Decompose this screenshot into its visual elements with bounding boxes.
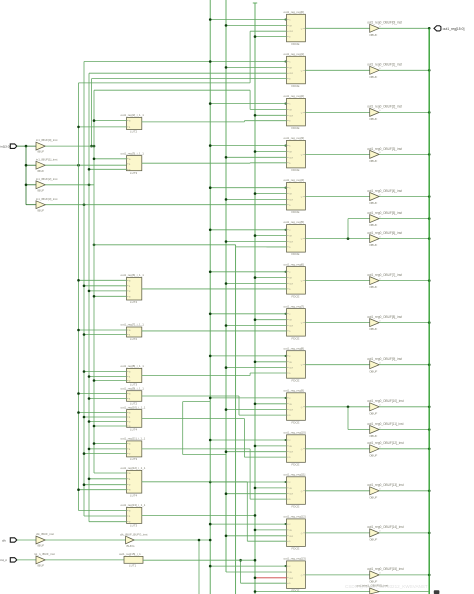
svg-text:OBUF: OBUF [369,538,377,542]
svg-text:FDCE: FDCE [292,168,300,172]
svg-text:0: 0 [379,489,380,491]
svg-text:FDCE: FDCE [292,252,300,256]
svg-text:CLR: CLR [289,284,294,286]
output buffer OBUF[7] [367,273,402,289]
wire D FF7 from LUT D [142,330,287,332]
svg-text:in1_IBUF[2]_inst: in1_IBUF[2]_inst [36,177,58,181]
svg-text:FDCE: FDCE [292,42,300,46]
svg-text:LUT1: LUT1 [129,564,136,568]
svg-text:IBUF: IBUF [38,208,45,212]
svg-text:I3: I3 [129,296,131,298]
svg-text:I2: I2 [129,454,131,456]
svg-text:out1_reg_reg[8]: out1_reg_reg[8] [284,346,305,350]
svg-text:I2: I2 [129,422,131,424]
input port in1[3:0] [0,144,17,149]
wire CLR input FF8 [225,366,287,369]
svg-text:0: 0 [379,363,380,365]
svg-text:I1: I1 [129,399,131,401]
flip-flop out1_reg_reg[10] (FDCE) [284,431,306,467]
wire output of out1_reg[13]_i_1 [142,514,256,517]
wire clk port to IBUF [17,539,36,541]
wire output of out1_reg[8]_i_1 [142,375,250,377]
svg-text:OBUF: OBUF [369,201,377,205]
svg-text:in1_IBUF[1]_inst: in1_IBUF[1]_inst [36,157,58,161]
wire data vertical x235 [235,245,237,594]
wire CLR FF1 long row [89,72,287,74]
wire C input FF8 [209,355,287,358]
wire in1[1] row [45,164,126,167]
svg-text:I1: I1 [129,335,131,337]
svg-text:I0: I0 [129,413,131,415]
svg-text:I1: I1 [129,127,131,129]
svg-text:I0: I0 [129,280,131,282]
wire Q output FF6 [305,280,369,282]
svg-text:rst_n: rst_n [0,558,7,562]
wire Q output FF5 [305,238,369,240]
svg-text:out1_reg_reg[0]: out1_reg_reg[0] [284,10,305,14]
output buffer OBUF[2] [367,105,402,121]
svg-text:I1: I1 [129,377,131,379]
svg-text:out1_reg_reg[7]: out1_reg_reg[7] [284,304,305,308]
svg-text:out1_reg_reg[2]: out1_reg_reg[2] [284,94,305,98]
svg-text:out1_reg0_OBUF[13]_inst: out1_reg0_OBUF[13]_inst [367,483,404,487]
wire D FF13 elbow [239,559,286,583]
svg-text:out1_reg0_OBUF[7]_inst: out1_reg0_OBUF[7]_inst [367,273,402,277]
svg-text:I2: I2 [129,381,131,383]
lut out1_reg[13]_i_1 (LUT3) [121,503,146,527]
wire CLR FF0 elbow route [79,31,287,83]
svg-text:0: 0 [379,447,380,449]
svg-text:CLR: CLR [289,410,294,412]
svg-text:out1_reg[12]_i_1_1: out1_reg[12]_i_1_1 [121,466,146,470]
svg-text:I1: I1 [129,286,131,288]
flip-flop out1_reg_reg[2] (FDCE) [284,94,306,130]
lut out1_reg[3]_i_1 (LUT3) [121,151,145,175]
wire Q output FF0 [305,27,369,29]
wire CLR input FF11 [225,492,287,495]
svg-text:FDCE: FDCE [292,294,300,298]
wire C input FF1 long row [84,60,287,63]
wire C input FF5 [209,229,287,232]
wire CE input FF8 [254,361,287,364]
wire CE input FF11 [254,487,287,490]
wire Q output FF8 [305,364,369,366]
svg-text:0: 0 [379,427,380,429]
output buffer OBUF[5] [367,211,402,227]
svg-text:out1_reg0_OBUF[0]_inst: out1_reg0_OBUF[0]_inst [367,21,402,25]
svg-text:out1_reg0_OBUF[10]_inst: out1_reg0_OBUF[10]_inst [367,399,404,403]
svg-text:out1_reg_reg[1]: out1_reg_reg[1] [284,52,305,56]
flip-flop out1_reg_reg[9] (FDCE) [284,388,306,424]
wire output of out1_reg[6]_i_1 [142,288,287,290]
wire CE vertical net [253,3,257,594]
wire OBUF[2] to bus [379,111,430,114]
wire rst port to IBUF [17,559,36,561]
wire OBUF[10] to bus [379,406,430,409]
svg-text:0: 0 [379,236,380,238]
svg-text:0: 0 [379,194,380,196]
output buffer OBUF[11] [367,422,403,438]
wire out_wire1 OBUF output [379,591,429,593]
flip-flop out1_reg_reg[7] (FDCE) [284,304,306,340]
output buffer OBUF[1] [367,63,402,79]
svg-text:out1_reg[9]_i_1_1: out1_reg[9]_i_1_1 [121,386,145,390]
svg-text:I0: I0 [129,473,131,475]
output buffer OBUF[0] [367,21,402,37]
wire CLR FF13 red segment [254,577,287,580]
svg-text:OBUF: OBUF [369,117,377,121]
wire clock vertical net [209,0,211,594]
svg-text:LUT3: LUT3 [130,524,137,528]
svg-text:out1_reg0_OBUF[4]_inst: out1_reg0_OBUF[4]_inst [367,189,402,193]
svg-text:out1_reg[10]_i_1_1: out1_reg[10]_i_1_1 [121,405,146,409]
svg-text:out1_reg0_OBUF[14]_inst: out1_reg0_OBUF[14]_inst [367,525,404,529]
svg-text:CLR: CLR [289,157,294,159]
svg-text:FDCE: FDCE [292,84,300,88]
wire inputs of out1_reg[13]_i_1 [79,511,127,522]
svg-text:CLR: CLR [289,326,294,328]
svg-text:clk_IBUF_inst: clk_IBUF_inst [36,532,54,536]
wire CE input FF3 [254,150,287,153]
wire extra OBUF jog lower [347,406,370,430]
svg-text:I3: I3 [129,426,131,428]
svg-text:IBUF: IBUF [38,544,45,548]
wire out_wire1 row [254,590,370,593]
wire CE input FF10 [254,445,287,448]
flip-flop out1_reg_reg[6] (FDCE) [284,262,306,298]
wire OBUF[15] to bus [379,574,430,577]
wire mid vertical x182 [183,402,226,455]
svg-text:OBUF: OBUF [369,495,377,499]
svg-text:CLR: CLR [289,536,294,538]
svg-text:out1_reg[11]_i_1_1: out1_reg[11]_i_1_1 [121,437,146,441]
wire OBUF[14] to bus [379,532,430,535]
svg-text:FDCE: FDCE [292,589,300,593]
svg-text:BUFG: BUFG [127,544,136,548]
svg-text:LUT2: LUT2 [130,337,137,341]
svg-text:I1: I1 [129,417,131,419]
svg-text:LUT3: LUT3 [130,457,137,461]
svg-text:OBUF: OBUF [369,159,377,163]
wire CLR input FF7 [225,324,287,327]
svg-text:I2: I2 [129,522,131,524]
output buffer OBUF[4] [367,189,402,205]
wire Q output FF12 [305,532,369,534]
wire C input FF7 [209,313,287,316]
svg-text:out1_reg[15]_i_1: out1_reg[15]_i_1 [119,552,141,556]
svg-text:out1_reg[8]_i_1_1: out1_reg[8]_i_1_1 [121,364,145,368]
wire C input FF6 [209,271,287,274]
output buffer OBUF[3] [367,147,402,163]
svg-text:in1_IBUF[0]_inst: in1_IBUF[0]_inst [36,138,58,142]
wire D FF8 from LUT E jog [250,373,286,376]
wire CLR input FF9 [225,408,287,411]
svg-text:out1_reg_reg[13]: out1_reg_reg[13] [284,557,306,561]
wire C input FF4 [209,186,287,189]
svg-text:out1_reg0_OBUF[6]_inst: out1_reg0_OBUF[6]_inst [367,231,402,235]
wire Q output FF13 [305,574,369,576]
svg-text:FDCE: FDCE [292,210,300,214]
svg-text:I0: I0 [129,159,131,161]
wire CE input FF1 [225,66,287,69]
wire CLR input FF4 [225,198,287,201]
wire CLR vertical net [225,0,227,572]
input port clk [2,538,17,543]
lut out1_reg[10]_i_1 (LUT4) [121,405,146,431]
flip-flop out1_reg_reg[5] (FDCE) [284,220,306,256]
svg-text:clk: clk [2,538,6,542]
wire D FF11 from LUT H jog [250,449,286,499]
output buffer OBUF[6] [367,231,402,247]
svg-text:out1_reg0_OBUF[15]_inst: out1_reg0_OBUF[15]_inst [367,567,404,571]
wire C input FF13 [209,565,287,568]
svg-text:LUT4: LUT4 [130,300,137,304]
svg-text:out1_reg[3]_i_1_1: out1_reg[3]_i_1_1 [121,151,145,155]
svg-text:I2: I2 [129,169,131,171]
svg-text:out1_reg_reg[5]: out1_reg_reg[5] [284,220,305,224]
lut out1_reg[7]_i_1 (LUT2) [121,323,145,342]
svg-text:out1_reg_reg[6]: out1_reg_reg[6] [284,262,305,266]
wire OBUF[12] to bus [379,448,430,451]
svg-text:I0: I0 [129,394,131,396]
svg-text:0: 0 [379,68,380,70]
wire CE input FF2 elbow [250,90,286,109]
flip-flop out1_reg_reg[12] (FDCE) [284,515,306,551]
output buffer OBUF[14] [367,525,404,541]
wire inputs of out1_reg[8]_i_1 [83,370,127,382]
svg-text:LUT3: LUT3 [130,171,137,175]
svg-text:FDCE: FDCE [292,420,300,424]
lut out1_reg[9]_i_1 (LUT2) [121,386,145,405]
output buffer out_wire1_OBUF (partial) [357,584,389,594]
output buffer OBUF[15] [367,567,404,583]
wire D FF12 from LUT I jog [247,482,286,541]
svg-text:out1_reg0_OBUF[11]_inst: out1_reg0_OBUF[11]_inst [367,422,403,426]
wire Q output FF7 [305,322,369,324]
wire Q output FF2 [305,111,369,113]
wire CLR input FF10 [225,450,287,453]
svg-text:0: 0 [379,152,380,154]
wire left vertical net v78 [78,83,80,511]
wire C input FF11 [209,481,287,484]
wire output of out1_reg[10]_i_1 [142,418,245,420]
lut out1_reg[11]_i_1 (LUT3) [121,437,146,462]
svg-text:I0: I0 [129,121,131,123]
wire C input FF0 [209,18,287,21]
svg-text:I1: I1 [129,164,131,166]
wire inputs of out1_reg[10]_i_1 [77,411,126,427]
wire D FF10 from LUT G jog [244,419,286,458]
wire inputs of out1_reg[3]_i_1 [88,158,127,171]
svg-text:CLR: CLR [289,452,294,454]
wire LUT1 output to reset net [143,559,256,562]
watermark text [345,584,439,594]
wire inputs of out1_reg[11]_i_1 [83,442,127,455]
svg-text:out1_reg0_OBUF[8]_inst: out1_reg0_OBUF[8]_inst [367,315,402,319]
wire out1 bus vertical [428,28,430,594]
svg-text:0: 0 [379,278,380,280]
flip-flop out1_reg_reg[3] (FDCE) [284,136,306,172]
svg-text:I3: I3 [129,490,131,492]
wire C input FF3 [209,144,287,147]
wire inputs of out1_reg[6]_i_1 [77,279,126,298]
flip-flop out1_reg_reg[13] (FDCE) [284,557,306,593]
wire in1[2] row [45,184,94,187]
wire rst IBUF to LUT1 [45,559,124,561]
svg-text:OBUF: OBUF [369,33,377,37]
wire Q output FF11 [305,490,369,492]
svg-text:I0: I0 [129,511,131,513]
svg-text:LUT2: LUT2 [130,130,137,134]
input buffer in1_IBUF[3] [36,197,58,213]
svg-text:CLR: CLR [289,368,294,370]
svg-text:I2: I2 [129,485,131,487]
wire D FF9 from LUT F jog [239,396,287,415]
svg-text:out1_reg_reg[4]: out1_reg_reg[4] [284,178,305,182]
wire OBUF[0] to bus [379,27,430,30]
svg-text:FDCE: FDCE [292,336,300,340]
wire CLR FF2 from CE vert [254,114,287,117]
wire CE input FF0 [225,24,287,27]
wire C input FF2 [209,102,287,105]
lut out1_reg[12]_i_1 (LUT4) [121,466,146,497]
svg-text:0: 0 [379,573,380,575]
svg-text:in1_IBUF[3]_inst: in1_IBUF[3]_inst [36,197,58,201]
wire C input FF10 [209,439,287,442]
wire inputs of out1_reg[9]_i_1 [77,392,126,400]
wire OBUF[6] to bus [379,237,430,240]
svg-text:I0: I0 [129,330,131,332]
wire output of out1_reg[2]_i_1 [142,121,245,123]
wire CE input FF4 [254,192,287,195]
svg-text:I0: I0 [129,372,131,374]
svg-text:out1_reg_reg[10]: out1_reg_reg[10] [284,431,306,435]
svg-text:OBUF: OBUF [369,369,377,373]
wire output of out1_reg[11]_i_1 [142,448,250,450]
svg-text:out1_reg[7]_i_1_1: out1_reg[7]_i_1_1 [121,323,145,327]
wire OBUF[11] to bus [379,428,430,431]
wire inputs of out1_reg[7]_i_1 [77,329,126,336]
flip-flop out1_reg_reg[8] (FDCE) [284,346,306,382]
wire extra OBUF jog upper [347,219,370,240]
wire output of out1_reg[9]_i_1 [142,395,239,397]
svg-text:clk_IBUF_BUFG_inst: clk_IBUF_BUFG_inst [120,533,148,537]
wire left vertical net v84 [83,62,85,517]
svg-text:I0: I0 [129,444,131,446]
output buffer OBUF[9] [367,357,402,373]
svg-text:OBUF: OBUF [369,434,377,438]
svg-text:LUT4: LUT4 [130,428,137,432]
svg-text:0: 0 [379,26,380,28]
svg-text:out1_reg[6]_i_1_1: out1_reg[6]_i_1_1 [121,273,145,277]
svg-text:CLR: CLR [289,73,294,75]
wire output of out1_reg[12]_i_1 [142,481,248,483]
svg-text:out1_reg0_OBUF[12]_inst: out1_reg0_OBUF[12]_inst [367,441,404,445]
svg-text:0: 0 [379,531,380,533]
svg-text:I1: I1 [129,516,131,518]
wire BUFG output to clock net [134,539,211,542]
svg-text:out1_reg[2]_i_1_1: out1_reg[2]_i_1_1 [121,113,145,117]
buffer clk_IBUF_BUFG_inst [120,533,148,549]
lut out1_reg[8]_i_1 (LUT3) [121,364,145,387]
output buffer OBUF[10] [367,399,404,415]
flip-flop out1_reg_reg[0] (FDCE) [284,10,306,46]
svg-text:0: 0 [379,405,380,407]
svg-text:out1_reg0_OBUF[1]_inst: out1_reg0_OBUF[1]_inst [367,63,402,67]
svg-text:FDCE: FDCE [292,463,300,467]
svg-text:0: 0 [379,110,380,112]
wire CLR input FF12 [225,535,287,538]
wire OBUF[13] to bus [379,490,430,493]
wire BUFG branch vertical [198,540,200,594]
svg-text:CLR: CLR [289,31,294,33]
wire left vertical net v94 [93,90,95,473]
wire inputs of out1_reg[12]_i_1 [77,473,126,491]
svg-text:out1_reg_reg[12]: out1_reg_reg[12] [284,515,306,519]
wire D FF5 row244 jog [93,244,287,247]
svg-text:I2: I2 [129,291,131,293]
svg-text:CLR: CLR [289,242,294,244]
svg-text:out1_reg_reg[9]: out1_reg_reg[9] [284,388,305,392]
svg-text:in1[3:0]: in1[3:0] [0,145,10,149]
output buffer OBUF[12] [367,441,404,457]
svg-text:0: 0 [379,216,380,218]
wire D FF2 from LUT A jog [244,121,286,122]
input buffer in1_IBUF[1] [36,157,58,173]
svg-text:I1: I1 [129,479,131,481]
input buffer in1_IBUF[0] [36,138,58,154]
svg-text:FDCE: FDCE [292,378,300,382]
wire clk IBUF to BUFG [45,539,125,541]
wire Q output FF9 [305,406,369,408]
svg-text:out1_reg_reg[11]: out1_reg_reg[11] [284,473,306,477]
svg-text:FDCE: FDCE [292,126,300,130]
wire CE input FF9 [254,403,287,406]
wire C input FF12 [209,523,287,526]
wire output of out1_reg[7]_i_1 [142,330,287,332]
wire output of out1_reg[3]_i_1 [142,162,250,164]
svg-text:out1_reg0_OBUF[3]_inst: out1_reg0_OBUF[3]_inst [367,147,402,151]
svg-text:out1_reg[15:0]: out1_reg[15:0] [443,27,465,31]
buffer rst_n_IBUF_inst [34,552,55,568]
output port out1_reg[15:0] [434,26,465,31]
svg-text:out1_reg0_OBUF[9]_inst: out1_reg0_OBUF[9]_inst [367,357,402,361]
wire in1[0] row [45,145,95,148]
output buffer OBUF[8] [367,315,402,331]
wire CE input FF12 [254,529,287,532]
svg-text:CLR: CLR [289,578,294,580]
wire D FF0 from CE vert [254,35,287,38]
wire OBUF[7] to bus [379,279,430,282]
wire CLR input FF5 [225,240,287,243]
svg-text:IBUF: IBUF [38,150,45,154]
input buffer in1_IBUF[2] [36,177,58,193]
wire OBUF[8] to bus [379,321,430,324]
wire D FF1 long row [90,79,286,148]
wire left vertical net v89 [88,73,90,522]
wire CE input FF7 [254,318,287,321]
wire CE input FF13 from CLR vertical end [226,571,287,573]
wire D FF4 in1[3] row [45,203,286,206]
wire CLR input FF3 [225,156,287,159]
svg-text:out1_reg_reg[3]: out1_reg_reg[3] [284,136,305,140]
svg-text:rst_n_IBUF_inst: rst_n_IBUF_inst [34,552,55,556]
svg-text:FDCE: FDCE [292,547,300,551]
flip-flop out1_reg_reg[4] (FDCE) [284,178,306,214]
svg-text:out1_reg[13]_i_1_1: out1_reg[13]_i_1_1 [121,503,146,507]
wire Q output FF10 [305,448,369,450]
flip-flop out1_reg_reg[1] (FDCE) [284,52,306,88]
